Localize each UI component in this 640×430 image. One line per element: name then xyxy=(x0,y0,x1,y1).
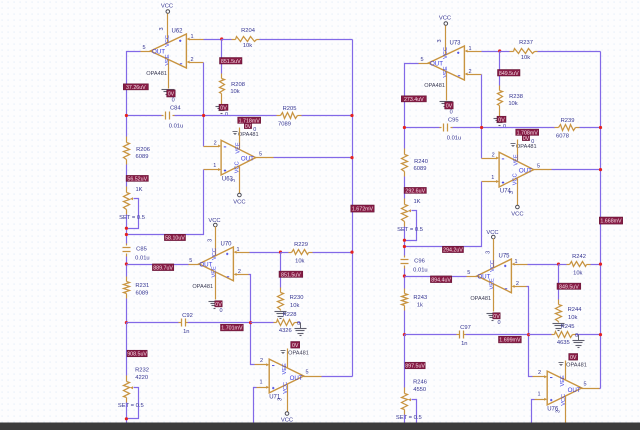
svg-text:0V: 0V xyxy=(493,314,500,320)
ground xyxy=(487,313,499,315)
svg-text:1.672mV: 1.672mV xyxy=(352,207,374,213)
svg-text:1K: 1K xyxy=(135,187,142,193)
ground xyxy=(553,323,565,325)
op-amp U74 (OPA481, right-facing) xyxy=(499,135,537,194)
voltage label 849.5uV xyxy=(557,283,581,290)
svg-text:C95: C95 xyxy=(448,117,459,123)
junction xyxy=(599,263,602,266)
svg-text:1.701mV: 1.701mV xyxy=(221,326,243,332)
voltage label 0V xyxy=(167,90,176,98)
svg-text:R238: R238 xyxy=(509,94,523,100)
svg-text:10k: 10k xyxy=(521,55,530,61)
svg-text:R239: R239 xyxy=(561,118,575,124)
svg-text:56.52uV: 56.52uV xyxy=(127,176,147,182)
wire xyxy=(404,177,406,199)
wire right rail xyxy=(600,52,602,389)
svg-text:5: 5 xyxy=(142,45,145,51)
ground xyxy=(216,106,228,108)
svg-text:894.4uV: 894.4uV xyxy=(431,277,451,283)
junction xyxy=(403,239,406,242)
svg-text:1K: 1K xyxy=(413,199,420,205)
potentiometer R246 4550 (SET = 0.5) xyxy=(402,380,427,415)
ground xyxy=(275,311,287,313)
ground marker xyxy=(281,350,286,352)
wire xyxy=(529,334,552,336)
svg-text:2: 2 xyxy=(538,370,541,376)
resistor R204 10k xyxy=(222,28,260,49)
svg-text:0V: 0V xyxy=(245,124,252,130)
VEE pin of U75 xyxy=(493,285,495,312)
wire xyxy=(127,170,204,235)
wire xyxy=(204,39,222,41)
potentiometer (SET = 0.5) xyxy=(124,187,134,215)
wire xyxy=(404,227,406,256)
ground xyxy=(440,101,453,103)
svg-text:58.10uV: 58.10uV xyxy=(165,235,185,241)
svg-text:0V: 0V xyxy=(215,302,222,308)
svg-text:10k: 10k xyxy=(290,303,299,309)
junction xyxy=(403,429,406,430)
capacitor C92 1n xyxy=(179,313,193,335)
voltage label 849.5uV xyxy=(498,70,521,77)
junction xyxy=(350,114,353,117)
wire xyxy=(298,322,301,324)
voltage label 889.7uV xyxy=(152,264,173,271)
svg-text:VEE: VEE xyxy=(560,375,566,386)
junction xyxy=(498,49,501,52)
resistor R239 6078 xyxy=(555,118,580,140)
svg-text:0V: 0V xyxy=(570,355,577,361)
power VCC of U71 xyxy=(287,385,289,412)
wire xyxy=(466,334,529,336)
svg-text:0V: 0V xyxy=(498,117,505,123)
svg-text:C97: C97 xyxy=(460,325,471,331)
svg-text:3: 3 xyxy=(485,251,491,254)
voltage label 292.6uV xyxy=(404,187,426,194)
wire xyxy=(203,63,205,147)
svg-text:U62: U62 xyxy=(171,28,183,34)
wire xyxy=(538,51,601,53)
wire xyxy=(527,287,533,377)
svg-text:R243: R243 xyxy=(413,295,427,301)
ground xyxy=(162,89,175,91)
svg-text:VEE: VEE xyxy=(443,66,449,77)
svg-text:10k: 10k xyxy=(295,258,304,264)
svg-text:851.5uV: 851.5uV xyxy=(221,59,241,65)
wire xyxy=(313,252,353,254)
svg-text:R205: R205 xyxy=(283,106,297,112)
resistor R206 6089 xyxy=(124,137,150,165)
svg-text:1: 1 xyxy=(213,163,216,169)
svg-text:2: 2 xyxy=(492,152,495,158)
capacitor C84 0.01u xyxy=(162,105,184,129)
svg-text:0: 0 xyxy=(172,98,175,104)
wire xyxy=(274,157,353,159)
svg-text:R230: R230 xyxy=(290,295,304,301)
resistor R245 4635 xyxy=(552,324,576,346)
svg-text:R229: R229 xyxy=(294,242,308,248)
svg-text:0V: 0V xyxy=(523,136,530,142)
capacitor C97 1n xyxy=(457,325,471,347)
svg-text:R204: R204 xyxy=(241,28,256,34)
svg-text:R244: R244 xyxy=(568,307,583,313)
wire potentiometer tap loop xyxy=(405,400,417,430)
svg-text:3: 3 xyxy=(207,239,213,242)
junction xyxy=(480,126,483,129)
svg-text:6089: 6089 xyxy=(414,166,427,172)
svg-text:0V: 0V xyxy=(220,105,227,111)
junction xyxy=(202,114,205,117)
wire xyxy=(552,169,601,171)
svg-text:37.26uV: 37.26uV xyxy=(126,85,146,91)
svg-text:294.2uV: 294.2uV xyxy=(443,247,463,253)
wire xyxy=(405,182,482,247)
svg-text:1.668mV: 1.668mV xyxy=(600,219,622,225)
voltage label 58.10uV xyxy=(164,234,185,241)
svg-text:OUT: OUT xyxy=(568,387,581,394)
wire xyxy=(249,275,255,365)
svg-text:0: 0 xyxy=(575,333,578,339)
svg-text:6089: 6089 xyxy=(136,154,149,160)
wire xyxy=(453,127,555,129)
wire xyxy=(126,165,128,187)
wire xyxy=(126,215,128,244)
svg-text:OUT: OUT xyxy=(290,375,303,382)
svg-text:SET = 0.5: SET = 0.5 xyxy=(397,227,423,233)
junction xyxy=(125,417,128,420)
svg-text:1n: 1n xyxy=(183,329,189,335)
svg-text:R242: R242 xyxy=(572,254,586,260)
wire xyxy=(405,334,457,336)
wire potentiometer tap loop xyxy=(127,388,139,419)
wire xyxy=(580,127,601,129)
svg-text:4635: 4635 xyxy=(557,340,570,346)
wire xyxy=(260,39,353,41)
svg-text:1: 1 xyxy=(537,391,540,397)
voltage label 37.26uV xyxy=(123,84,148,91)
svg-text:VCC: VCC xyxy=(490,260,496,272)
wire xyxy=(126,403,128,424)
svg-text:OPA481: OPA481 xyxy=(192,284,213,290)
wire xyxy=(528,264,559,266)
resistor R238 10k xyxy=(498,52,523,118)
svg-text:0: 0 xyxy=(219,308,222,314)
svg-text:VEE: VEE xyxy=(236,142,242,153)
svg-text:OPA481: OPA481 xyxy=(470,296,491,302)
VEE pin of U73 xyxy=(446,72,448,101)
resistor R229 10k xyxy=(281,242,313,264)
capacitor C95 0.01u xyxy=(440,117,462,141)
svg-text:4550: 4550 xyxy=(413,387,426,393)
wire xyxy=(127,52,141,137)
wire xyxy=(250,252,281,254)
svg-text:5: 5 xyxy=(305,369,308,375)
svg-text:0V: 0V xyxy=(292,343,299,349)
wire xyxy=(482,51,500,53)
svg-text:SET = 0.5: SET = 0.5 xyxy=(119,215,145,221)
svg-text:849.5uV: 849.5uV xyxy=(559,284,579,290)
svg-text:1: 1 xyxy=(259,379,262,385)
wire xyxy=(302,115,353,117)
junction xyxy=(599,168,602,171)
voltage label 851.5uV xyxy=(220,58,243,65)
resistor R205 7089 xyxy=(277,106,302,128)
resistor R231 6089 xyxy=(124,277,150,299)
svg-text:273.4uV: 273.4uV xyxy=(404,97,424,103)
junction xyxy=(527,333,530,336)
wire potentiometer tap loop xyxy=(127,199,139,229)
voltage label 1.718mV xyxy=(238,117,261,124)
svg-text:3: 3 xyxy=(509,191,515,194)
svg-text:R231: R231 xyxy=(135,283,149,289)
junction xyxy=(599,126,602,129)
junction xyxy=(279,251,282,254)
svg-text:0.01u: 0.01u xyxy=(447,135,462,141)
wire xyxy=(405,276,467,278)
svg-text:10k: 10k xyxy=(230,89,239,95)
resistor R244 10k xyxy=(556,265,583,323)
svg-text:0.01u: 0.01u xyxy=(135,255,150,261)
wire xyxy=(404,415,406,430)
capacitor C96 0.01u xyxy=(401,256,428,274)
svg-text:C96: C96 xyxy=(414,259,425,265)
voltage label 1.668mV xyxy=(599,217,622,225)
svg-text:6089: 6089 xyxy=(135,290,148,296)
wire xyxy=(251,322,274,324)
ground xyxy=(494,118,506,120)
VEE pin of U62 xyxy=(168,60,170,89)
junction xyxy=(125,233,128,236)
resistor R230 10k xyxy=(278,253,304,311)
svg-text:897.5uV: 897.5uV xyxy=(405,364,425,370)
svg-text:SET = 0.5: SET = 0.5 xyxy=(118,403,144,409)
voltage label 0V xyxy=(569,354,578,361)
svg-text:R206: R206 xyxy=(136,147,150,153)
svg-text:OUT: OUT xyxy=(430,60,443,67)
junction xyxy=(350,251,353,254)
svg-text:R246: R246 xyxy=(413,380,427,386)
junction xyxy=(350,156,353,159)
svg-text:OPA481: OPA481 xyxy=(566,363,587,369)
junction xyxy=(249,321,252,324)
svg-text:VCC: VCC xyxy=(161,4,173,10)
resistor R208 10k xyxy=(220,40,245,106)
wire xyxy=(404,269,406,289)
svg-text:3: 3 xyxy=(556,410,562,413)
VEE pin of U70 xyxy=(215,273,217,300)
VEE pin of U71 xyxy=(287,349,289,368)
wire xyxy=(591,264,601,266)
svg-text:7089: 7089 xyxy=(278,122,291,128)
svg-text:VEE: VEE xyxy=(514,154,520,165)
wire xyxy=(481,75,483,159)
wire xyxy=(126,257,128,277)
wire xyxy=(175,115,277,117)
potentiometer (SET = 0.5) xyxy=(402,199,412,227)
wire right rail xyxy=(352,40,354,377)
svg-text:0.01u: 0.01u xyxy=(413,267,428,273)
resistor R240 6089 xyxy=(402,149,428,177)
wire xyxy=(405,64,419,149)
svg-text:VEE: VEE xyxy=(282,363,288,374)
svg-text:6078: 6078 xyxy=(556,134,569,140)
svg-text:VCC: VCC xyxy=(233,200,245,206)
ground xyxy=(209,301,221,303)
svg-text:5: 5 xyxy=(189,258,192,264)
wire xyxy=(127,264,189,266)
junction xyxy=(220,37,223,40)
svg-text:1k: 1k xyxy=(417,302,423,308)
resistor R237 10k xyxy=(500,40,538,61)
svg-text:3: 3 xyxy=(437,39,443,42)
svg-text:1: 1 xyxy=(491,175,494,181)
wire xyxy=(405,127,440,129)
svg-text:R240: R240 xyxy=(414,159,428,165)
svg-text:2: 2 xyxy=(260,358,263,364)
voltage label 1.701mV xyxy=(221,324,244,331)
svg-text:VCC: VCC xyxy=(443,47,449,59)
svg-text:R237: R237 xyxy=(519,40,533,46)
svg-text:C92: C92 xyxy=(182,313,193,319)
power VCC of U74 xyxy=(517,179,519,206)
voltage label 0V xyxy=(219,104,228,111)
svg-text:0: 0 xyxy=(497,320,500,326)
junction xyxy=(403,245,406,248)
svg-text:10k: 10k xyxy=(243,43,252,49)
wire xyxy=(127,322,179,324)
status bar xyxy=(0,423,640,430)
ground marker xyxy=(559,362,564,364)
wire xyxy=(576,334,601,336)
voltage label 908.5uV xyxy=(127,350,147,357)
svg-text:VCC: VCC xyxy=(212,248,218,260)
svg-text:3: 3 xyxy=(278,398,284,401)
voltage label 0V xyxy=(445,102,454,110)
voltage label 0V xyxy=(291,342,300,349)
svg-text:4220: 4220 xyxy=(135,375,148,381)
voltage label 1.699mV xyxy=(499,336,522,343)
resistor R228 4326 xyxy=(274,312,298,334)
wire xyxy=(322,376,353,378)
svg-text:3: 3 xyxy=(159,27,165,30)
junction xyxy=(403,333,406,336)
VEE pin of U76 xyxy=(565,361,567,380)
svg-text:5: 5 xyxy=(259,152,262,158)
svg-text:OUT: OUT xyxy=(152,48,165,55)
svg-text:4326: 4326 xyxy=(279,328,292,334)
svg-text:U75: U75 xyxy=(498,253,510,259)
wire xyxy=(126,299,128,323)
svg-text:R245: R245 xyxy=(561,324,575,330)
svg-text:OUT: OUT xyxy=(477,273,490,280)
svg-text:2: 2 xyxy=(214,140,217,146)
svg-text:VCC: VCC xyxy=(511,212,523,218)
wire xyxy=(532,400,535,430)
svg-text:849.5uV: 849.5uV xyxy=(499,71,519,77)
svg-text:OUT: OUT xyxy=(519,168,532,175)
voltage label 0V xyxy=(215,301,222,308)
wire xyxy=(127,115,162,117)
svg-text:R232: R232 xyxy=(135,368,149,374)
svg-text:U70: U70 xyxy=(220,241,232,247)
voltage label 56.52uV xyxy=(126,175,148,182)
svg-text:OPA481: OPA481 xyxy=(424,83,445,89)
power VCC of U76 xyxy=(565,397,567,424)
op-amp U71 (OPA481, right-facing) xyxy=(269,359,304,401)
svg-text:5: 5 xyxy=(583,381,586,387)
junction xyxy=(599,333,602,336)
junction xyxy=(125,227,128,230)
svg-text:VCC: VCC xyxy=(165,35,171,47)
junction xyxy=(125,262,128,265)
ground xyxy=(300,323,302,329)
svg-text:908.5uV: 908.5uV xyxy=(127,352,147,358)
svg-text:0: 0 xyxy=(297,321,300,327)
wire xyxy=(404,311,406,335)
svg-text:VCC: VCC xyxy=(439,16,451,22)
voltage label 1.708mV xyxy=(516,129,539,136)
svg-text:5: 5 xyxy=(420,57,423,63)
svg-text:5: 5 xyxy=(467,270,470,276)
op-amp U76 (OPA481, right-facing) xyxy=(547,371,582,413)
potentiometer R232 4220 (SET = 0.5) xyxy=(124,368,149,403)
wire xyxy=(254,388,257,424)
capacitor C85 0.01u xyxy=(123,244,150,262)
svg-text:OUT: OUT xyxy=(199,261,212,268)
wire xyxy=(188,322,251,324)
svg-text:R228: R228 xyxy=(283,312,297,318)
voltage label 273.4uV xyxy=(401,96,426,103)
svg-text:R208: R208 xyxy=(231,82,245,88)
junction xyxy=(557,263,560,266)
junction xyxy=(403,274,406,277)
svg-text:10k: 10k xyxy=(568,315,577,321)
svg-text:0.01u: 0.01u xyxy=(169,123,184,129)
svg-text:OPA481: OPA481 xyxy=(516,144,537,150)
power VCC of U63 xyxy=(239,167,241,194)
svg-text:851.5uV: 851.5uV xyxy=(281,272,301,278)
ground xyxy=(578,335,580,341)
resistor R243 1k xyxy=(402,289,428,311)
op-amp U63 (OPA481, right-facing) xyxy=(221,123,259,182)
voltage label 0V xyxy=(493,313,500,320)
svg-text:292.6uV: 292.6uV xyxy=(405,188,425,194)
junction xyxy=(403,126,406,129)
svg-text:U73: U73 xyxy=(449,40,461,46)
voltage label 1.672mV xyxy=(351,205,374,213)
voltage label 894.4uV xyxy=(430,276,451,283)
wire xyxy=(126,323,128,376)
voltage label 851.5uV xyxy=(279,271,303,278)
svg-text:1n: 1n xyxy=(461,341,467,347)
voltage label 294.2uV xyxy=(442,246,463,253)
svg-text:OPA481: OPA481 xyxy=(238,132,259,138)
svg-text:1.699mV: 1.699mV xyxy=(499,338,521,344)
voltage label 897.5uV xyxy=(405,362,425,369)
voltage label 0V xyxy=(497,116,506,123)
svg-text:VEE: VEE xyxy=(165,54,171,65)
svg-text:SET = 0.5: SET = 0.5 xyxy=(396,415,422,421)
svg-text:C85: C85 xyxy=(136,247,147,253)
svg-text:889.7uV: 889.7uV xyxy=(153,265,173,271)
svg-text:OPA481: OPA481 xyxy=(288,351,309,357)
svg-text:C84: C84 xyxy=(170,105,181,111)
svg-text:0: 0 xyxy=(450,110,453,116)
svg-text:3: 3 xyxy=(231,179,237,182)
wire xyxy=(404,335,406,388)
svg-text:5: 5 xyxy=(537,164,540,170)
svg-text:OPA481: OPA481 xyxy=(146,71,167,77)
